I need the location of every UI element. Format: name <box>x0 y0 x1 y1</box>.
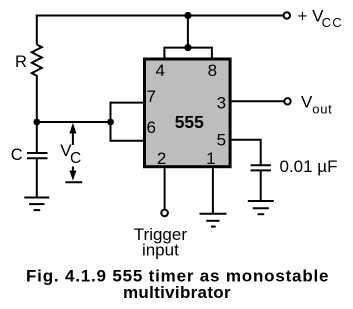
svg-text:C: C <box>70 150 81 167</box>
svg-text:input: input <box>142 241 179 260</box>
svg-text:8: 8 <box>208 61 217 80</box>
svg-text:3: 3 <box>217 93 226 112</box>
svg-text:out: out <box>312 102 332 117</box>
svg-text:1: 1 <box>206 149 215 168</box>
svg-text:CC: CC <box>322 15 342 30</box>
svg-text:7: 7 <box>146 87 155 106</box>
svg-text:2: 2 <box>157 149 166 168</box>
svg-text:6: 6 <box>146 118 155 137</box>
svg-text:0.01 µF: 0.01 µF <box>280 157 338 176</box>
svg-text:+ V: + V <box>298 6 325 25</box>
svg-text:4: 4 <box>155 61 164 80</box>
svg-text:V: V <box>301 93 313 112</box>
svg-text:5: 5 <box>217 131 226 150</box>
svg-text:C: C <box>11 146 23 164</box>
svg-text:555: 555 <box>175 112 204 132</box>
svg-text:multivibrator: multivibrator <box>123 283 231 302</box>
svg-text:R: R <box>15 53 27 71</box>
